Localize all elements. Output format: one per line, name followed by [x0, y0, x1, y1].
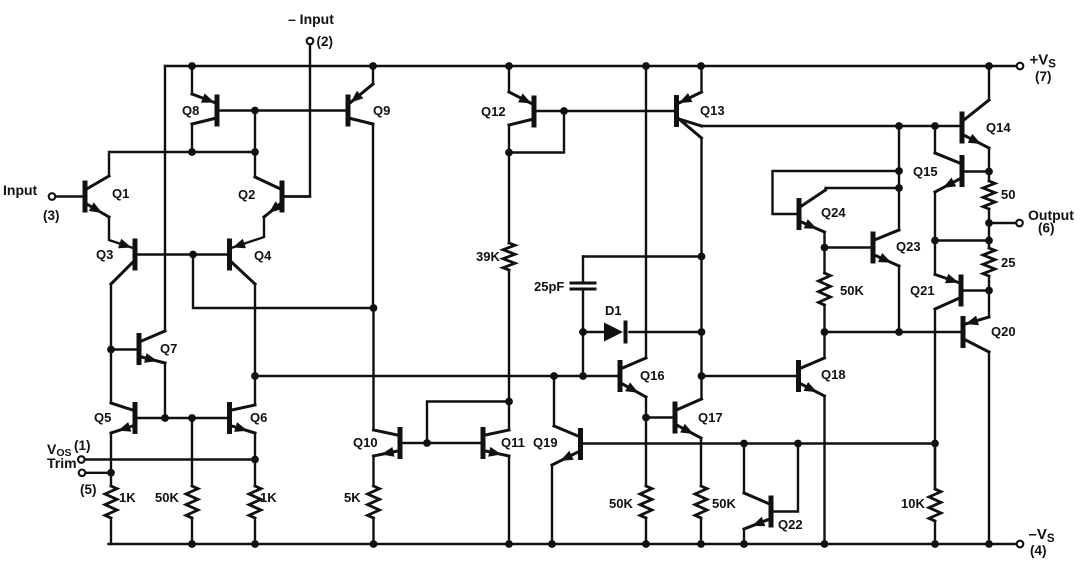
- label +Vs: [1030, 52, 1057, 71]
- node Q18 collector junction: [821, 328, 829, 336]
- resistor R1 1K: [105, 473, 117, 544]
- value 10K R11: [901, 496, 925, 511]
- resistor R8 50K (Q24 emitter): [819, 273, 831, 332]
- value 1K R1: [119, 490, 136, 505]
- value 5K R4: [344, 490, 361, 505]
- wire Q13 upper collector to Q14 base (y=126): [702, 125, 960, 127]
- svg-text:– Input: – Input: [288, 11, 334, 27]
- transistor Q9: [348, 66, 373, 308]
- svg-text:(1): (1): [74, 438, 91, 453]
- node +Vs/Q12 emitter: [505, 62, 513, 70]
- svg-text:Q6: Q6: [250, 410, 267, 425]
- svg-text:Trim: Trim: [47, 455, 77, 471]
- node Q2 collector junction: [251, 148, 259, 156]
- label Q10: [353, 435, 378, 450]
- node Q10/Q11 base junction: [423, 439, 431, 447]
- node Q9/Q10 collector junction: [370, 304, 378, 312]
- svg-text:5K: 5K: [344, 490, 361, 505]
- transistor Q24: [799, 190, 826, 273]
- transistor Q5: [111, 350, 135, 473]
- svg-text:50K: 50K: [840, 283, 864, 298]
- node D1 anode junction: [579, 328, 587, 336]
- node -Vs rail j9: [821, 540, 829, 548]
- svg-text:25: 25: [1001, 255, 1015, 270]
- node +Vs/Q13 emitter: [697, 62, 705, 70]
- svg-text:Q14: Q14: [986, 120, 1011, 135]
- svg-text:50K: 50K: [712, 496, 736, 511]
- node Q12 base tie junction: [560, 107, 568, 115]
- wire -Vs supply rail (bottom): [109, 543, 1017, 545]
- resistor R10 25: [983, 241, 995, 277]
- transistor Q14: [962, 66, 989, 172]
- label Q11: [501, 435, 525, 450]
- wire Q1/Q2 collector bus (y=152): [109, 152, 255, 176]
- resistor R3 1K: [249, 460, 261, 545]
- node Q21 base junction: [985, 287, 993, 295]
- label Q24: [821, 205, 846, 220]
- node Q22 base junction: [794, 440, 802, 448]
- node 25pF top junction: [698, 253, 706, 261]
- transistor Q16: [620, 66, 646, 486]
- svg-text:Q12: Q12: [481, 104, 506, 119]
- node +Vs/Q16 collector: [642, 62, 650, 70]
- wire Q3/Q4 base node down-run: [193, 255, 374, 309]
- node 25ohm top junction: [985, 237, 993, 245]
- wire Q12/Q13 base link: [537, 110, 675, 112]
- node -Vs rail j2: [251, 540, 259, 548]
- wire compensation top run (25pF to Q13 collector): [583, 255, 702, 257]
- transistor Q6: [230, 376, 256, 460]
- node -Vs rail j10: [931, 540, 939, 548]
- node Q23 base junction: [821, 244, 829, 252]
- label Q1: [112, 186, 129, 201]
- wire Q10/Q11 base link: [402, 442, 480, 444]
- wire D1 anode run: [583, 331, 604, 333]
- label Input: [3, 182, 38, 198]
- transistor Q17: [675, 376, 702, 486]
- value 1K R3: [260, 490, 277, 505]
- value 50K R7: [712, 496, 736, 511]
- node Q16 emitter junction: [642, 414, 650, 422]
- svg-text:(4): (4): [1030, 543, 1047, 558]
- value 50 R9: [1001, 187, 1015, 202]
- node 25pF bottom junction: [579, 372, 587, 380]
- wire Q16 emitter to Q17 base: [646, 416, 673, 418]
- node Q24 base junction: [895, 167, 903, 175]
- svg-text:Q21: Q21: [910, 283, 935, 298]
- resistor R9 50: [983, 172, 995, 241]
- transistor Q10: [374, 308, 401, 486]
- node Q14 emitter junction: [985, 168, 993, 176]
- node trim pin1 junction: [251, 456, 259, 464]
- svg-text:D1: D1: [605, 303, 622, 318]
- svg-text:39K: 39K: [476, 249, 500, 264]
- transistor Q23: [873, 230, 899, 332]
- label Q6: [250, 410, 267, 425]
- node -Vs rail j8: [740, 540, 748, 548]
- node 10K top junction: [931, 440, 939, 448]
- node -Vs rail j11: [985, 540, 993, 548]
- label Q15: [913, 164, 938, 179]
- wire Q23 base link: [825, 246, 871, 248]
- terminal -Vs pin 4: [1017, 541, 1024, 548]
- label Q5: [94, 410, 111, 425]
- label Q8: [182, 103, 199, 118]
- node Q12 collector tie junction: [505, 149, 513, 157]
- svg-text:1K: 1K: [260, 490, 277, 505]
- capacitor C1 25pF: [571, 257, 595, 377]
- wire Vos trim pin1 run: [85, 458, 256, 460]
- node -Vs rail j6: [642, 540, 650, 548]
- node trim pin5 junction: [107, 469, 115, 477]
- wire Q11 base-collector bridge: [427, 402, 509, 444]
- value 25pF C1: [534, 279, 564, 294]
- wire D1 cathode run: [630, 331, 702, 333]
- label Q13: [700, 103, 725, 118]
- resistor R4 5K: [368, 486, 380, 544]
- value 50K R8: [840, 283, 864, 298]
- svg-text:Q17: Q17: [698, 410, 723, 425]
- svg-text:Q22: Q22: [778, 517, 803, 532]
- label -Input: [288, 11, 334, 27]
- diode D1: [604, 323, 626, 342]
- label Q14: [986, 120, 1011, 135]
- transistor Q3: [111, 241, 135, 350]
- svg-text:Q3: Q3: [96, 247, 113, 262]
- svg-text:Q7: Q7: [160, 341, 177, 356]
- wire Q21 base link: [965, 289, 990, 291]
- terminal Output pin 6: [1016, 220, 1023, 227]
- svg-text:Q23: Q23: [896, 239, 921, 254]
- label Q12: [481, 104, 506, 119]
- node -Vs rail j5: [548, 540, 556, 548]
- label Q3: [96, 247, 113, 262]
- wire Q15 emitter to output node: [935, 239, 989, 241]
- pin number (1): [74, 438, 91, 453]
- node Q24 collector junction: [895, 184, 903, 192]
- terminal Vos Trim pin 5: [79, 470, 86, 477]
- wire Q22 base up-run: [774, 444, 799, 512]
- svg-text:1K: 1K: [119, 490, 136, 505]
- wire Q8/Q9 base link: [220, 109, 346, 111]
- node Q15 emitter junction: [931, 237, 939, 245]
- wire Q3/Q4 base link: [137, 253, 227, 255]
- transistor Q18: [799, 332, 825, 544]
- node +Vs/Q14 collector: [985, 62, 993, 70]
- value 39K R5: [476, 249, 500, 264]
- svg-text:Q16: Q16: [640, 368, 665, 383]
- node Q19 collector junction: [550, 372, 558, 380]
- terminal -Input pin 2: [285, 38, 314, 197]
- pin number (4): [1030, 543, 1047, 558]
- wire Q15 base link: [965, 170, 990, 172]
- node Q22 collector junction: [740, 440, 748, 448]
- transistor Q12: [509, 66, 534, 243]
- svg-text:Q1: Q1: [112, 186, 129, 201]
- terminal +Vs pin 7: [1017, 63, 1024, 70]
- wire Q14 bias vertical (Q13 collector to Q23): [898, 126, 900, 229]
- svg-text:Q15: Q15: [913, 164, 938, 179]
- svg-text:50K: 50K: [609, 496, 633, 511]
- svg-text:Q18: Q18: [821, 367, 846, 382]
- svg-text:50K: 50K: [155, 490, 179, 505]
- transistor Q13: [677, 66, 702, 138]
- svg-text:50: 50: [1001, 187, 1015, 202]
- node Q23 emitter junction: [895, 328, 903, 336]
- label Q23: [896, 239, 921, 254]
- wire Q17 collector bus to Q18 base (y=376 right): [702, 375, 797, 377]
- resistor R5 39K: [503, 243, 515, 402]
- wire output node run: [989, 222, 1016, 224]
- node D1 cathode junction: [698, 328, 706, 336]
- label Vos: [47, 441, 72, 459]
- svg-text:(6): (6): [1038, 221, 1055, 236]
- label Output: [1028, 207, 1074, 223]
- node Q7 emitter junction: [161, 414, 169, 422]
- node Q11 collector junction: [505, 398, 513, 406]
- node Q14 base bus junction: [895, 122, 903, 130]
- transistor Q4: [230, 241, 256, 376]
- svg-text:25pF: 25pF: [534, 279, 564, 294]
- svg-text:Q10: Q10: [353, 435, 378, 450]
- wire Q24 base loop: [773, 171, 900, 214]
- wire Q12 base-collector tie: [509, 111, 564, 153]
- svg-text:Q11: Q11: [501, 435, 525, 450]
- label Q18: [821, 367, 846, 382]
- wire Q7 collector to +Vs: [164, 66, 166, 331]
- node -Vs rail j4: [505, 540, 513, 548]
- svg-text:(7): (7): [1035, 69, 1052, 84]
- transistor Q15: [935, 126, 962, 274]
- node 50K R2 top junction: [188, 414, 196, 422]
- transistor Q11: [483, 402, 509, 545]
- svg-text:Input: Input: [3, 182, 38, 198]
- node Q4/Q6 collector junction: [251, 372, 259, 380]
- label Q16: [640, 368, 665, 383]
- resistor R2 50K: [186, 418, 198, 544]
- terminal Input pin 3: [49, 193, 83, 200]
- wire Q19 base bus (y=443.5): [583, 442, 935, 444]
- label Q20: [991, 324, 1016, 339]
- transistor Q21: [935, 274, 961, 486]
- label Q2: [238, 187, 255, 202]
- pin number (7): [1035, 69, 1052, 84]
- svg-text:Q19: Q19: [533, 435, 558, 450]
- label D1: [605, 303, 622, 318]
- node +Vs/Q8 emitter: [188, 62, 196, 70]
- wire Q5/Q6 base link: [137, 417, 227, 419]
- node Q8/Q9 base junction: [251, 107, 259, 115]
- svg-text:Q13: Q13: [700, 103, 725, 118]
- node -Vs rail j3: [370, 540, 378, 548]
- pin number (2): [317, 34, 334, 49]
- svg-text:(5): (5): [80, 482, 97, 497]
- node Q15 collector junction: [931, 122, 939, 130]
- svg-text:10K: 10K: [901, 496, 925, 511]
- label Q7: [160, 341, 177, 356]
- svg-text:(2): (2): [317, 34, 334, 49]
- svg-text:Q24: Q24: [821, 205, 846, 220]
- node Q8 collector junction: [188, 148, 196, 156]
- wire +Vs supply rail: [165, 65, 1017, 67]
- value 50K R6: [609, 496, 633, 511]
- node Q17 collector junction: [698, 372, 706, 380]
- label Q17: [698, 410, 723, 425]
- pin number (5): [80, 482, 97, 497]
- terminal Vos Trim pin 1: [78, 456, 85, 463]
- node output junction: [985, 219, 993, 227]
- svg-text:Q20: Q20: [991, 324, 1016, 339]
- node +Vs/Q9 emitter: [369, 62, 377, 70]
- node Q3/Q4 base junction: [189, 251, 197, 259]
- wire Vos trim pin5 run: [85, 472, 111, 474]
- transistor Q1: [85, 176, 132, 248]
- svg-text:Q2: Q2: [238, 187, 255, 202]
- svg-text:Q5: Q5: [94, 410, 111, 425]
- label Q21: [910, 283, 935, 298]
- transistor Q19: [552, 376, 581, 544]
- node -Vs rail j7: [697, 540, 705, 548]
- wire second-stage base bus (y=376 left): [255, 375, 618, 377]
- transistor Q7: [111, 331, 165, 418]
- label Trim: [47, 455, 77, 471]
- label Q4: [254, 248, 272, 263]
- node Q3 collector / Q7 base: [107, 346, 115, 354]
- transistor Q22: [744, 444, 771, 545]
- label Q9: [373, 103, 390, 118]
- resistor R6 50K (Q16 emitter): [640, 486, 652, 544]
- wire Q18 collector node (y=332): [825, 331, 961, 333]
- value 50K R2: [155, 490, 179, 505]
- svg-text:Q4: Q4: [254, 248, 272, 263]
- pin number (6): [1038, 221, 1055, 236]
- svg-text:Q8: Q8: [182, 103, 199, 118]
- transistor Q20: [963, 276, 989, 544]
- svg-text:(3): (3): [43, 208, 60, 223]
- svg-text:Q9: Q9: [373, 103, 390, 118]
- label Q19: [533, 435, 558, 450]
- label -Vs: [1029, 526, 1055, 545]
- transistor Q8: [192, 66, 217, 152]
- node -Vs rail j1: [188, 540, 196, 548]
- value 25 R10: [1001, 255, 1015, 270]
- label Q22: [778, 517, 803, 532]
- wire Q24 collector run: [826, 188, 900, 190]
- wire Q13 lower collector down-run: [700, 138, 702, 376]
- transistor Q2: [233, 152, 311, 248]
- resistor R7 50K (Q17 emitter): [695, 486, 707, 544]
- wire Q8 base to collector-bus tie: [254, 111, 256, 153]
- resistor R11 10K: [929, 444, 941, 545]
- pin number (3): [43, 208, 60, 223]
